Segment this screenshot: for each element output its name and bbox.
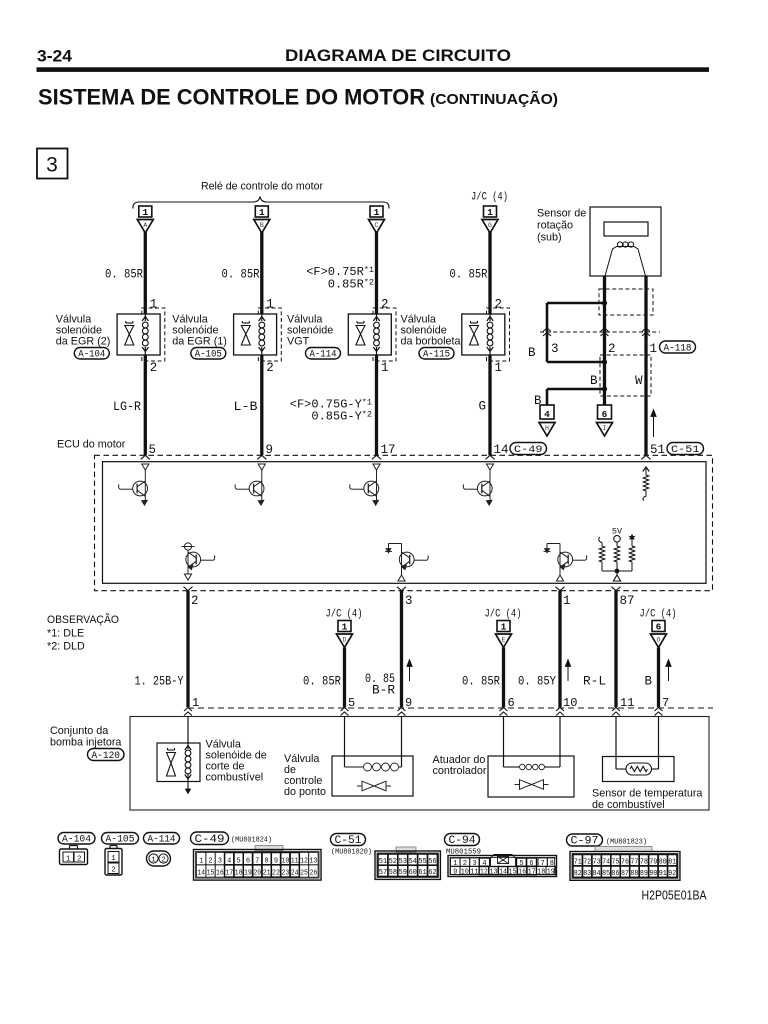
- harness crossing mark: [500, 708, 508, 712]
- ECU transistor Q7: [558, 552, 573, 567]
- ground connector box 4: [540, 405, 554, 419]
- svg-text:0. 85R: 0. 85R: [450, 268, 488, 282]
- svg-text:3: 3: [405, 594, 413, 608]
- svg-text:20: 20: [253, 870, 261, 878]
- svg-text:18: 18: [537, 868, 545, 876]
- dashed harness box lower: [600, 355, 651, 396]
- svg-text:16: 16: [216, 870, 224, 878]
- svg-text:A-118: A-118: [664, 344, 692, 355]
- svg-text:2: 2: [111, 867, 116, 875]
- svg-text:B: B: [590, 374, 598, 388]
- wire J/C to pin7: [657, 648, 660, 708]
- svg-text:61: 61: [418, 869, 426, 877]
- relay feed connector triangle B: [254, 220, 270, 234]
- svg-text:25: 25: [300, 870, 308, 878]
- svg-text:controlador: controlador: [433, 765, 487, 777]
- harness crossing mark: [341, 708, 349, 712]
- svg-text:83: 83: [583, 870, 591, 878]
- svg-text:1: 1: [487, 207, 493, 218]
- connector oval C-97 (pinout): [567, 834, 603, 846]
- svg-text:14: 14: [499, 868, 507, 876]
- ground connector box 6: [598, 405, 612, 419]
- header rule: [37, 67, 710, 72]
- svg-text:2: 2: [266, 361, 274, 375]
- svg-text:13: 13: [489, 868, 497, 876]
- svg-text:A-104: A-104: [78, 350, 105, 361]
- svg-text:2: 2: [608, 342, 616, 356]
- svg-text:2: 2: [150, 361, 158, 375]
- svg-text:17: 17: [225, 870, 233, 878]
- ECU entry mark: [486, 455, 495, 459]
- svg-text:60: 60: [408, 869, 416, 877]
- svg-text:LG-R: LG-R: [113, 400, 141, 414]
- ECU transistor Q5: [186, 552, 201, 567]
- svg-text:C-51: C-51: [671, 445, 700, 456]
- relay brace: [133, 197, 389, 209]
- ECU entry mark: [257, 455, 266, 459]
- svg-text:2: 2: [77, 856, 82, 864]
- svg-text:(sub): (sub): [537, 232, 562, 244]
- relay feed connector box 1 (wire 4): [484, 206, 497, 217]
- sensor display window: [604, 222, 648, 236]
- connector oval A-118: [660, 341, 696, 353]
- ECU entry mark: [141, 455, 150, 459]
- svg-text:1: 1: [501, 621, 507, 632]
- svg-text:0. 85Y: 0. 85Y: [518, 675, 556, 689]
- svg-text:L-B: L-B: [234, 400, 259, 414]
- svg-text:da EGR (1): da EGR (1): [172, 336, 227, 348]
- svg-text:92: 92: [668, 870, 676, 878]
- svg-text:(MU801824): (MU801824): [231, 837, 272, 845]
- bottom harness dashed row: [188, 707, 713, 709]
- svg-text:58: 58: [389, 869, 397, 877]
- solenoid valve component A-114: [287, 232, 396, 456]
- svg-text:C-49: C-49: [195, 834, 225, 846]
- svg-text:2: 2: [161, 857, 165, 865]
- ECU exit mark: [184, 587, 193, 591]
- svg-text:B: B: [644, 675, 652, 689]
- svg-text:J/C (4): J/C (4): [326, 609, 363, 621]
- svg-text:DIAGRAMA DE CIRCUITO: DIAGRAMA DE CIRCUITO: [285, 47, 511, 65]
- svg-text:(MU801823): (MU801823): [606, 839, 647, 847]
- connector A-104 pinout drawing: [60, 846, 88, 865]
- harness crossing mark: [612, 708, 620, 712]
- svg-text:87: 87: [620, 594, 635, 608]
- svg-text:G: G: [488, 222, 492, 229]
- svg-text:J/C (4): J/C (4): [485, 609, 522, 621]
- conjunto da bomba injetora outer box: [130, 717, 709, 811]
- svg-text:A-114: A-114: [148, 835, 176, 846]
- svg-text:0.85R*2: 0.85R*2: [328, 278, 374, 292]
- svg-text:10: 10: [563, 696, 577, 710]
- svg-text:2: 2: [191, 594, 199, 608]
- svg-text:1: 1: [563, 594, 571, 608]
- relay feed connector triangle C: [369, 220, 385, 234]
- svg-text:23: 23: [281, 870, 289, 878]
- controller actuator box: [488, 756, 574, 797]
- svg-text:(MU801820): (MU801820): [331, 849, 372, 857]
- svg-text:0. 85R: 0. 85R: [105, 268, 143, 282]
- svg-text:0. 85R: 0. 85R: [303, 675, 341, 689]
- wire J/C to pin6: [502, 648, 505, 708]
- svg-text:7: 7: [662, 696, 669, 710]
- svg-text:1: 1: [374, 207, 380, 218]
- svg-text:W: W: [635, 374, 643, 388]
- sensor wire left (B): [603, 276, 606, 405]
- svg-text:14: 14: [197, 870, 205, 878]
- svg-text:1: 1: [150, 298, 158, 312]
- svg-text:D: D: [343, 637, 347, 644]
- connector A-114 pinout drawing: [147, 851, 171, 866]
- connector C-49 pinout table: [194, 846, 322, 881]
- wire ECU pin2 to bomba pin1: [186, 591, 189, 708]
- svg-text:I: I: [603, 425, 607, 432]
- svg-text:4: 4: [544, 409, 550, 420]
- fuel temperature sensor box: [603, 757, 675, 782]
- dashed harness box upper: [599, 289, 653, 315]
- connector oval A-105 (pinout): [102, 833, 139, 845]
- svg-text:C-97: C-97: [571, 836, 599, 848]
- actuator valve symbol: [515, 784, 520, 786]
- svg-text:G: G: [478, 400, 486, 414]
- timing control valve box: [332, 756, 413, 796]
- svg-text:3-24: 3-24: [37, 47, 73, 66]
- thin wires pins 11,7 into sensor: [615, 717, 617, 770]
- svg-text:A: A: [143, 222, 147, 229]
- svg-text:Sensor de temperatura: Sensor de temperatura: [592, 788, 702, 800]
- svg-text:19: 19: [244, 870, 252, 878]
- connector oval A-104 (pinout): [58, 833, 95, 845]
- harness crossing mark: [556, 708, 564, 712]
- svg-text:21: 21: [263, 870, 271, 878]
- branch wire to ground connector 4: [547, 388, 605, 391]
- ECU solid box: [103, 462, 707, 584]
- svg-text:A-104: A-104: [62, 835, 91, 846]
- svg-text:C-51: C-51: [335, 835, 362, 847]
- svg-text:H2P05E01BA: H2P05E01BA: [642, 889, 708, 903]
- harness crossing mark: [655, 708, 663, 712]
- svg-text:R-L: R-L: [583, 675, 606, 689]
- svg-text:O: O: [657, 637, 661, 644]
- svg-text:57: 57: [379, 869, 387, 877]
- direction arrow up beside W wire: [653, 414, 655, 437]
- svg-text:1: 1: [342, 621, 348, 632]
- svg-text:B-R: B-R: [372, 684, 395, 698]
- connector oval A-120: [88, 749, 125, 761]
- solenoid valve component A-115: [401, 232, 510, 456]
- svg-text:H: H: [545, 425, 549, 432]
- svg-text:13: 13: [309, 857, 317, 865]
- svg-text:22: 22: [272, 870, 280, 878]
- svg-text:0. 85R: 0. 85R: [222, 268, 260, 282]
- relay feed connector triangle G: [482, 220, 498, 234]
- svg-text:1: 1: [650, 342, 658, 356]
- relay feed connector box 1 (wire 3): [370, 206, 383, 217]
- svg-text:1: 1: [381, 361, 389, 375]
- thin wires pins 5,9 into valve: [344, 717, 346, 768]
- ECU transistor Q2: [258, 464, 265, 470]
- svg-text:6: 6: [656, 621, 662, 632]
- svg-text:11: 11: [470, 868, 478, 876]
- connector C-51 pinout table: [375, 847, 440, 879]
- svg-text:85: 85: [602, 870, 610, 878]
- svg-text:VGT: VGT: [287, 336, 310, 348]
- svg-text:1: 1: [66, 856, 71, 864]
- connector C-97 pinout table: [570, 847, 680, 881]
- thermistor symbol: [626, 763, 652, 775]
- wire ECU pin3 to pin9: [400, 591, 403, 708]
- connector C-94 pinout table: [448, 855, 557, 877]
- solenoid ground stub: [187, 782, 189, 791]
- branch wire to pin 3: [547, 302, 605, 305]
- connector oval C-49: [510, 443, 547, 455]
- svg-text:12: 12: [300, 857, 308, 865]
- svg-text:2: 2: [208, 857, 212, 865]
- svg-text:*2: DLD: *2: DLD: [47, 641, 85, 653]
- connector oval C-49 (pinout): [191, 832, 229, 845]
- svg-text:bomba injetora: bomba injetora: [50, 737, 121, 749]
- svg-text:12: 12: [480, 868, 488, 876]
- sensor pickup trapezoid with coil: [605, 247, 646, 277]
- wire ECU pin87 to pin11: [614, 591, 617, 708]
- ECU transistor Q6: [399, 552, 414, 567]
- ECU transistor Q1: [142, 464, 149, 470]
- svg-text:B: B: [528, 346, 536, 360]
- svg-text:A-114: A-114: [310, 350, 337, 361]
- connector oval A-114 (pinout): [144, 833, 180, 845]
- harness crossing mark: [184, 708, 192, 712]
- relay feed connector box 1 (wire 2): [255, 206, 268, 217]
- branch wire joining pin 3 to B wire: [547, 361, 605, 364]
- connector oval C-51 (pinout): [331, 834, 366, 846]
- svg-text:82: 82: [574, 870, 582, 878]
- figure number box 3: [37, 149, 68, 179]
- svg-text:1: 1: [495, 361, 503, 375]
- svg-text:da borboleta: da borboleta: [401, 336, 461, 348]
- ECU dashed outline: [95, 455, 713, 590]
- ECU entry mark: [372, 455, 381, 459]
- svg-text:11: 11: [620, 696, 634, 710]
- svg-text:da EGR (2): da EGR (2): [56, 336, 111, 348]
- connector oval C-94 (pinout): [445, 834, 480, 846]
- svg-text:1: 1: [259, 207, 265, 218]
- svg-text:OBSERVAÇÃO: OBSERVAÇÃO: [47, 613, 119, 626]
- ECU exit mark: [397, 587, 406, 591]
- ECU exit mark: [612, 587, 621, 591]
- svg-text:3: 3: [218, 857, 222, 865]
- sensor wire right (W): [644, 276, 647, 455]
- svg-text:9: 9: [453, 868, 457, 876]
- svg-text:26: 26: [309, 870, 317, 878]
- sensor de rotacao box: [590, 207, 661, 276]
- svg-text:2: 2: [381, 298, 389, 312]
- wire J/C to pin5: [343, 648, 346, 708]
- thin wires pins 6,10 into actuator: [503, 717, 505, 768]
- direction arrow up (B wire): [668, 664, 670, 681]
- svg-text:2: 2: [495, 298, 503, 312]
- connector oval C-51: [667, 443, 704, 455]
- svg-text:84: 84: [593, 870, 601, 878]
- direction arrow up (B-R wire): [409, 664, 411, 681]
- harness crossing mark: [398, 708, 406, 712]
- svg-text:1: 1: [151, 857, 155, 865]
- fuel cut solenoid valve box: [157, 743, 200, 782]
- svg-text:15: 15: [207, 870, 215, 878]
- ground connector triangle I: [597, 423, 613, 437]
- svg-text:6: 6: [508, 696, 515, 710]
- svg-text:17: 17: [528, 868, 536, 876]
- svg-text:89: 89: [640, 870, 648, 878]
- svg-text:A-105: A-105: [106, 835, 135, 846]
- svg-text:A-120: A-120: [92, 751, 121, 762]
- svg-text:90: 90: [649, 870, 657, 878]
- svg-text:87: 87: [621, 870, 629, 878]
- direction arrow up (0.85Y wire): [567, 664, 569, 681]
- wire ECU pin1 to pin10: [558, 591, 561, 708]
- svg-text:10: 10: [461, 868, 469, 876]
- svg-text:1: 1: [142, 207, 148, 218]
- ECU transistor Q4: [486, 464, 493, 470]
- svg-text:91: 91: [659, 870, 667, 878]
- relay feed connector triangle A: [137, 220, 153, 234]
- svg-text:J/C (4): J/C (4): [471, 192, 508, 204]
- solenoid valve component A-104: [56, 232, 165, 456]
- svg-text:86: 86: [612, 870, 620, 878]
- svg-text:E: E: [502, 637, 506, 644]
- ECU transistor Q3: [373, 464, 380, 470]
- svg-text:24: 24: [291, 870, 299, 878]
- svg-text:1: 1: [192, 696, 199, 710]
- svg-text:3: 3: [551, 342, 559, 356]
- svg-text:Sensor de: Sensor de: [537, 208, 586, 220]
- svg-text:3: 3: [46, 154, 58, 177]
- svg-text:rotação: rotação: [537, 220, 573, 232]
- ECU exit mark: [556, 587, 565, 591]
- svg-text:Relé de controle do motor: Relé de controle do motor: [201, 181, 323, 193]
- timing valve symbol: [357, 785, 362, 787]
- svg-text:1: 1: [199, 857, 203, 865]
- svg-text:88: 88: [630, 870, 638, 878]
- svg-text:1: 1: [111, 855, 116, 863]
- svg-text:62: 62: [428, 869, 436, 877]
- connector A-118 dashed row: [540, 331, 660, 333]
- svg-text:16: 16: [518, 868, 526, 876]
- svg-text:1: 1: [266, 298, 274, 312]
- svg-text:SISTEMA DE CONTROLE DO MOTOR: SISTEMA DE CONTROLE DO MOTOR: [38, 85, 425, 110]
- svg-text:A-115: A-115: [423, 350, 450, 361]
- svg-text:combustível: combustível: [206, 772, 264, 784]
- solenoid valve component A-105: [172, 232, 281, 456]
- svg-text:de combustível: de combustível: [592, 799, 665, 811]
- svg-text:C-49: C-49: [514, 445, 543, 456]
- svg-text:5: 5: [348, 696, 355, 710]
- relay feed connector box 1 (wire 1): [139, 206, 152, 217]
- svg-text:18: 18: [235, 870, 243, 878]
- svg-text:59: 59: [399, 869, 407, 877]
- svg-text:Conjunto da: Conjunto da: [50, 725, 108, 737]
- svg-text:1. 25B-Y: 1. 25B-Y: [135, 675, 184, 689]
- svg-text:ECU do motor: ECU do motor: [57, 439, 126, 451]
- connector A-105 pinout drawing: [105, 846, 122, 876]
- svg-text:C: C: [375, 222, 379, 229]
- svg-text:C-94: C-94: [449, 835, 476, 847]
- svg-text:(CONTINUAÇÃO): (CONTINUAÇÃO): [430, 90, 558, 108]
- ground connector triangle H: [539, 423, 555, 437]
- svg-text:0.85G-Y*2: 0.85G-Y*2: [311, 410, 372, 424]
- svg-text:A-105: A-105: [195, 350, 222, 361]
- svg-text:J/C (4): J/C (4): [640, 609, 677, 621]
- svg-text:0. 85R: 0. 85R: [462, 675, 500, 689]
- svg-text:19: 19: [547, 868, 555, 876]
- svg-text:B: B: [260, 222, 264, 229]
- svg-text:9: 9: [405, 696, 412, 710]
- svg-text:*1: DLE: *1: DLE: [47, 628, 84, 640]
- svg-text:6: 6: [602, 409, 608, 420]
- thin wire pin1 into solenoid: [187, 717, 189, 744]
- svg-text:do ponto: do ponto: [284, 786, 326, 798]
- ECU input resistor on pin 51: [643, 467, 649, 472]
- svg-text:15: 15: [509, 868, 517, 876]
